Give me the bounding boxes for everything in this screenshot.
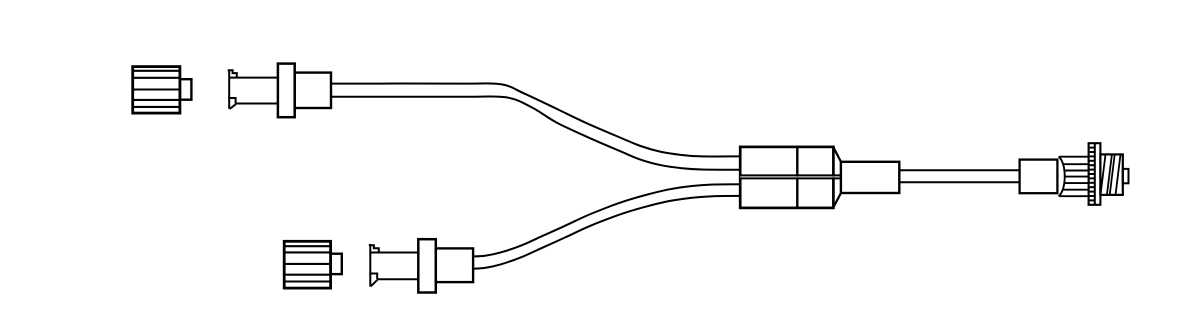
luer connector (bottom branch)	[369, 239, 473, 292]
vented cap (top branch)	[132, 67, 191, 114]
threaded collar	[1100, 154, 1122, 195]
Y-junction outlet taper	[833, 147, 899, 207]
male luer cone	[1059, 157, 1089, 197]
luer connector (top branch)	[228, 64, 331, 118]
male luer-lock body	[1020, 160, 1058, 194]
main line tubing	[899, 170, 1020, 182]
Y-junction body	[740, 146, 841, 208]
luer tip	[1123, 169, 1129, 183]
vented cap (bottom branch)	[284, 241, 342, 288]
tubing (top branch)	[331, 83, 741, 169]
knurled lock ring	[1089, 143, 1101, 205]
tubing (bottom branch)	[472, 184, 741, 269]
